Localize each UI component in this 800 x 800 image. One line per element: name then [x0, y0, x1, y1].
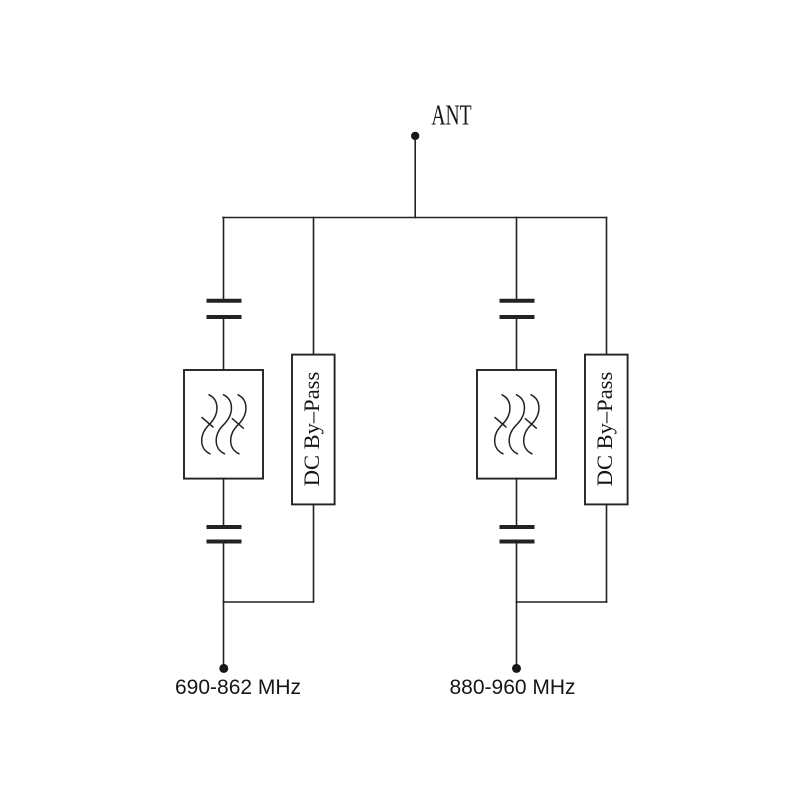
node ANT junction dot — [411, 132, 419, 140]
wire right joining horizontal — [517, 601, 607, 603]
wire FL1 to capacitor C2 — [223, 479, 225, 526]
wire bus horizontal — [223, 217, 607, 219]
svg-text:DC By–Pass: DC By–Pass — [299, 372, 324, 486]
capacitor C1 — [207, 301, 242, 317]
wire ANT vertical — [414, 140, 416, 218]
wire FL2 to capacitor C4 — [516, 479, 518, 526]
node output 2 dot — [512, 664, 521, 673]
svg-text:ANT: ANT — [431, 100, 471, 131]
wire C4 to junction — [516, 544, 518, 603]
wire left joining horizontal — [224, 601, 314, 603]
DC By-Pass box left — [292, 355, 335, 505]
svg-text:880-960 MHz: 880-960 MHz — [450, 676, 576, 699]
DC By-Pass box right — [585, 355, 628, 505]
wire left branch: bus to capacitor C1 — [223, 218, 225, 300]
node output 1 dot — [219, 664, 228, 673]
filter FL1 box — [184, 370, 263, 479]
capacitor C3 — [500, 301, 535, 317]
wire right DC bypass: box to junction — [606, 504, 608, 602]
wire right branch: bus to capacitor C3 — [516, 218, 518, 300]
capacitor C2 — [207, 527, 242, 542]
wire C3 to filter FL2 — [516, 319, 518, 370]
svg-text:DC By–Pass: DC By–Pass — [592, 372, 617, 486]
filter FL1 wave symbol — [202, 395, 246, 454]
svg-text:690-862 MHz: 690-862 MHz — [175, 676, 301, 699]
wire right DC bypass: bus to box — [606, 218, 608, 355]
wire right output vertical — [516, 602, 518, 664]
wire left DC bypass: bus to box — [313, 218, 315, 355]
wire left output vertical — [223, 602, 225, 664]
filter FL2 wave symbol — [495, 395, 539, 454]
wire left DC bypass: box to junction — [313, 504, 315, 602]
capacitor C4 — [500, 527, 535, 542]
wire C1 to filter FL1 — [223, 319, 225, 370]
filter FL2 box — [477, 370, 556, 479]
wire C2 to junction — [223, 544, 225, 603]
